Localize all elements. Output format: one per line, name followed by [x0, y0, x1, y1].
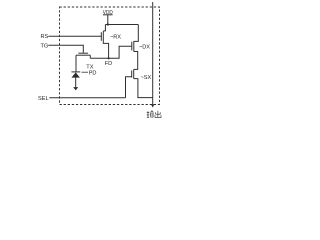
- node TG label: [41, 43, 49, 49]
- svg-text:RS: RS: [41, 34, 49, 40]
- transistor RX label: [110, 35, 121, 41]
- wire DX drain lead: [134, 25, 139, 42]
- wire FD net: [90, 46, 132, 58]
- wire output column line: [152, 2, 154, 105]
- node PD label leader: [82, 71, 89, 73]
- glyph 出: [155, 111, 161, 118]
- svg-text:TX: TX: [86, 64, 93, 70]
- node SEL label: [38, 96, 49, 102]
- transistor TX gate bar: [78, 52, 88, 54]
- transistor TX label: [86, 64, 93, 70]
- transistor DX gate bar: [131, 42, 133, 51]
- svg-text:~DX: ~DX: [139, 45, 150, 51]
- svg-text:PD: PD: [89, 71, 97, 77]
- VDD rail bar: [103, 14, 113, 16]
- wire RX drain lead: [103, 25, 105, 31]
- svg-text:~SX: ~SX: [141, 75, 152, 81]
- transistor RX channel bar: [102, 31, 104, 42]
- wire DX source to SX drain: [134, 52, 138, 70]
- svg-text:TG: TG: [41, 43, 49, 49]
- wire SX gate lead to SEL: [126, 77, 132, 98]
- wire TX source to photodiode: [75, 55, 77, 72]
- wire PD anode: [75, 78, 77, 88]
- transistor RX gate bar: [100, 32, 102, 41]
- svg-text:FD: FD: [105, 61, 112, 67]
- node output label (Chinese: 输出): [147, 111, 161, 118]
- transistor TX channel bar: [76, 54, 90, 56]
- wire RS row line: [48, 35, 101, 37]
- wire RX source to FD: [103, 42, 108, 58]
- junction dot VDD node: [107, 23, 109, 25]
- wire VDD horizontal rail: [105, 24, 138, 26]
- ground arrow below PD: [73, 87, 78, 90]
- transistor DX channel bar: [133, 41, 135, 52]
- wire TG row line: [48, 45, 83, 53]
- wire SX source to output column: [134, 79, 153, 98]
- transistor DX label: [139, 45, 150, 51]
- svg-text:SEL: SEL: [38, 96, 49, 102]
- wire TX drain to FD: [89, 55, 91, 58]
- wire SEL row line: [49, 97, 125, 99]
- node FD label: [105, 61, 112, 67]
- junction dot FD node: [108, 57, 110, 59]
- photodiode PD triangle: [72, 72, 80, 77]
- svg-text:~RX: ~RX: [110, 35, 121, 41]
- wire VDD stem: [107, 15, 109, 25]
- photodiode PD cathode bar: [71, 71, 80, 73]
- transistor SX label: [141, 75, 152, 81]
- node PD label: [89, 71, 97, 77]
- transistor SX channel bar: [133, 69, 135, 78]
- node VDD label: [103, 10, 113, 16]
- output arrowhead: [151, 104, 155, 107]
- glyph 输: [147, 111, 154, 118]
- pixel boundary dashed box: [60, 7, 160, 105]
- transistor SX gate bar: [131, 70, 133, 77]
- node RS label: [41, 34, 49, 40]
